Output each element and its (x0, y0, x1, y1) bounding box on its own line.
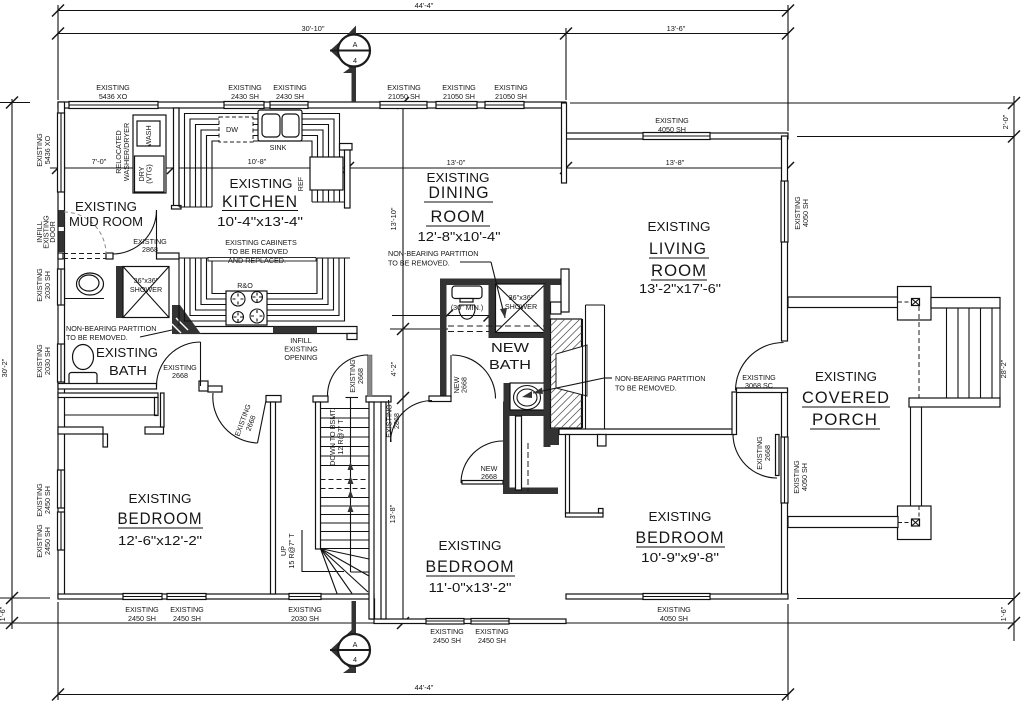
svg-text:EXISTING: EXISTING (228, 83, 262, 92)
svg-text:EXISTING: EXISTING (655, 116, 689, 125)
wall closet below bath (58, 393, 158, 398)
stair direction arrow (346, 398, 370, 573)
svg-text:EXISTING: EXISTING (96, 345, 158, 360)
svg-text:2450 SH: 2450 SH (128, 614, 156, 623)
door living room porch 3068 SC (736, 343, 784, 391)
svg-text:ROOM: ROOM (651, 262, 707, 280)
door label new bath 2668 rotated (452, 376, 469, 393)
chase walls below new bath (503, 402, 510, 494)
svg-text:EXISTING: EXISTING (649, 509, 712, 524)
svg-text:EXISTING: EXISTING (129, 491, 192, 506)
window 2030 SH left #1 (58, 269, 65, 305)
svg-text:EXISTING: EXISTING (442, 83, 476, 92)
svg-text:ROOM: ROOM (431, 208, 486, 226)
door label porch 3068 SC (742, 373, 776, 390)
note non-bearing bath (66, 324, 172, 342)
kitchen sink double bowl (258, 110, 302, 152)
room label dining (418, 170, 501, 244)
label 36x36 shower existing (130, 276, 162, 294)
svg-text:1'-6": 1'-6" (999, 606, 1008, 621)
svg-text:2450 SH: 2450 SH (478, 636, 506, 645)
toilet clearance dim line (392, 310, 506, 322)
window 4050 SH right wall lower (781, 437, 788, 503)
porch rail south-west (788, 517, 898, 528)
door closet 2668 (213, 393, 267, 443)
window label 2030 bottom (288, 605, 322, 623)
door middle bedroom 2868 (389, 400, 433, 442)
svg-text:BEDROOM: BEDROOM (426, 558, 515, 576)
svg-text:PORCH: PORCH (812, 411, 878, 429)
svg-text:EXISTING: EXISTING (430, 627, 464, 636)
wall vestibule jog vertical (732, 392, 737, 435)
porch post lower (898, 506, 932, 540)
svg-text:REF: REF (296, 176, 305, 191)
svg-text:NON-BEARING PARTITION: NON-BEARING PARTITION (615, 374, 705, 383)
window label 4050 bottom right (657, 605, 691, 623)
label down to bsmt rotated (328, 408, 345, 466)
window label 21050 #2 (442, 83, 476, 101)
svg-text:21050 SH: 21050 SH (495, 92, 527, 101)
door label bedroom right 2668 rotated (755, 436, 772, 470)
svg-text:WASH: WASH (144, 125, 153, 146)
svg-text:4: 4 (353, 655, 357, 664)
stair treads (321, 409, 370, 549)
svg-text:15 R@7" T: 15 R@7" T (287, 533, 296, 569)
window 2450 SH middle bottom #1 (426, 619, 464, 625)
extension line y=623 full width (0, 622, 1014, 624)
svg-text:13'-6": 13'-6" (667, 24, 686, 33)
svg-text:3068 SC: 3068 SC (745, 381, 773, 390)
svg-text:EXISTING: EXISTING (494, 83, 528, 92)
window 4050 SH right wall upper (781, 181, 788, 242)
label 36x36 shower new (505, 293, 537, 311)
svg-text:EXISTING: EXISTING (439, 538, 502, 553)
room label kitchen (217, 176, 303, 265)
svg-text:EXISTING: EXISTING (230, 176, 293, 191)
wall living room top (566, 133, 788, 139)
window label 5436 XO left (35, 133, 52, 167)
svg-text:4050 SH: 4050 SH (660, 614, 688, 623)
svg-text:2430 SH: 2430 SH (231, 92, 259, 101)
existing bath toilet (69, 345, 97, 386)
bedroom closet wall right (566, 435, 570, 514)
note non-bearing dining (388, 249, 507, 318)
chimney wall caps white (561, 269, 569, 312)
svg-text:21050 SH: 21050 SH (388, 92, 420, 101)
svg-text:SHOWER: SHOWER (130, 285, 162, 294)
door label mud 2868 (133, 237, 167, 254)
room label right bedroom (636, 509, 726, 565)
svg-text:SHOWER: SHOWER (505, 302, 537, 311)
svg-text:EXISTING CABINETS: EXISTING CABINETS (225, 238, 297, 247)
wall bedroom top bands (58, 427, 103, 434)
svg-text:44'-4": 44'-4" (415, 1, 434, 10)
door label bedroom 2868 rotated (385, 404, 402, 438)
svg-text:2'-0": 2'-0" (1001, 114, 1010, 129)
window 2430 SH #1 (224, 102, 264, 109)
svg-text:4050 SH: 4050 SH (800, 463, 809, 491)
svg-text:COVERED: COVERED (802, 389, 890, 407)
porch rail east vertical (911, 407, 922, 506)
window label 2450 left #1 (35, 483, 52, 517)
svg-text:EXISTING: EXISTING (170, 605, 204, 614)
infill door dashed swing (64, 212, 106, 254)
interior dimension line 7'-0"/10'-8"/13'-0"/13'-8" (50, 157, 794, 174)
svg-text:4'-2": 4'-2" (389, 361, 398, 376)
wall kitchen bottom end cap jog (347, 334, 357, 340)
window 5436 XO left wall (58, 113, 65, 192)
wall breast notch below (598, 435, 607, 447)
svg-text:TO BE REMOVED.: TO BE REMOVED. (66, 333, 128, 342)
svg-text:R&O: R&O (237, 281, 253, 290)
wall stair east + bedroom west (366, 396, 391, 402)
window 2030 SH bottom (289, 594, 321, 600)
wall mud room bottom (58, 253, 63, 259)
svg-text:12'-8"x10'-4": 12'-8"x10'-4" (418, 229, 501, 244)
dashed partition to be removed (448, 326, 545, 332)
chimney hatched masonry (551, 319, 582, 428)
svg-text:NON-BEARING PARTITION: NON-BEARING PARTITION (66, 324, 156, 333)
section marker bottom A/4 (330, 601, 371, 673)
note non-bearing living (533, 374, 705, 394)
kitchen upper counter nested lines (179, 108, 345, 207)
svg-text:2668: 2668 (481, 472, 497, 481)
porch stair treads east (947, 308, 1001, 398)
window label 4050 right lower (792, 460, 809, 494)
window label 5436 XO top (96, 83, 130, 101)
wall kitchen bottom (176, 327, 357, 334)
svg-text:2868: 2868 (392, 413, 401, 429)
chimney breast lines living room (583, 305, 605, 429)
room label left bedroom (118, 491, 204, 548)
svg-text:EXISTING: EXISTING (475, 627, 509, 636)
window 21050 SH #2 (436, 102, 477, 109)
svg-text:11'-0"x13'-2": 11'-0"x13'-2" (429, 580, 512, 595)
dimension line 44'-4" top (52, 1, 794, 17)
wall vestibule east-going (737, 388, 788, 393)
window 5436 XO top (69, 102, 158, 109)
stair break dashed lines (321, 480, 370, 489)
room label middle bedroom (426, 538, 516, 595)
window label 2450 bottom #2 (170, 605, 204, 623)
svg-text:BATH: BATH (489, 357, 531, 372)
svg-text:TO BE REMOVED.: TO BE REMOVED. (615, 384, 677, 393)
wall dining/living divider stub (562, 103, 567, 183)
vanity sink new bath (504, 383, 550, 416)
wall bottom left bedroom (58, 594, 374, 599)
svg-text:12 R@7" T: 12 R@7" T (336, 419, 345, 455)
svg-text:A: A (353, 40, 358, 49)
door chase to bedroom NEW 2668 (461, 441, 503, 484)
svg-text:2030 SH: 2030 SH (291, 614, 319, 623)
svg-text:DOOR: DOOR (48, 221, 57, 243)
wall existing bath bottom (58, 384, 157, 390)
wall living room bottom (559, 429, 734, 435)
door stair top 2668 (328, 355, 373, 396)
svg-text:36"x36": 36"x36" (509, 293, 534, 302)
svg-text:4: 4 (353, 56, 357, 65)
svg-text:WASHER/DRYER: WASHER/DRYER (122, 123, 131, 181)
svg-text:BATH: BATH (109, 363, 147, 378)
new bath shower 36x36 (496, 284, 546, 333)
window label 2430 #1 (228, 83, 262, 101)
room label mud room (69, 199, 143, 229)
svg-text:EXISTING: EXISTING (427, 170, 490, 185)
svg-text:EXISTING: EXISTING (75, 199, 137, 214)
porch stair bottom band (909, 398, 1000, 407)
window 2450 SH left #2 (58, 512, 65, 550)
wall exterior top (58, 102, 566, 108)
window 4050 SH bottom right (643, 594, 710, 600)
existing bath shower 36x36 (116, 266, 169, 318)
stair winder edge line (302, 530, 344, 572)
svg-text:EXISTING: EXISTING (273, 83, 307, 92)
svg-text:2450 SH: 2450 SH (173, 614, 201, 623)
new bath walls dark (440, 279, 561, 286)
infill existing opening dark bar (273, 327, 317, 334)
window 4050 SH living top (643, 133, 710, 140)
window label 2450 middle #2 (475, 627, 509, 645)
svg-text:(VTG): (VTG) (145, 164, 154, 184)
section marker top A/4 (330, 26, 371, 103)
wall exterior left (58, 102, 65, 598)
svg-text:44'-4": 44'-4" (415, 683, 434, 692)
svg-text:36"x36": 36"x36" (134, 276, 159, 285)
window 2450 SH bottom #2 (167, 594, 206, 600)
svg-text:BEDROOM: BEDROOM (636, 529, 725, 547)
window label 2450 middle #1 (430, 627, 464, 645)
svg-text:EXISTING: EXISTING (387, 83, 421, 92)
window label 21050 #1 (387, 83, 421, 101)
svg-text:2668: 2668 (763, 445, 772, 461)
porch stair dashed centerline (918, 306, 920, 398)
label up 15r rotated (279, 533, 296, 569)
svg-text:EXISTING: EXISTING (125, 605, 159, 614)
svg-text:EXISTING: EXISTING (815, 369, 877, 384)
svg-text:10'-8": 10'-8" (248, 157, 267, 166)
door label bath 2668 (163, 363, 197, 380)
svg-text:12'-6"x12'-2": 12'-6"x12'-2" (118, 533, 202, 548)
svg-text:10'-4"x13'-4": 10'-4"x13'-4" (217, 214, 303, 229)
window 2030 SH left #2 (58, 344, 65, 382)
door existing bath 2668 (157, 342, 201, 386)
svg-text:1'-6": 1'-6" (0, 606, 7, 621)
svg-text:30'-10": 30'-10" (302, 24, 325, 33)
wall stair west (313, 396, 328, 402)
door label infill existing door (35, 215, 57, 249)
door new bath 2668 (451, 355, 496, 399)
svg-text:2668: 2668 (460, 377, 469, 393)
svg-text:TO BE REMOVED.: TO BE REMOVED. (388, 259, 450, 268)
svg-text:2430 SH: 2430 SH (276, 92, 304, 101)
svg-text:OPENING: OPENING (284, 353, 318, 362)
chimney dark west wall (544, 284, 551, 447)
porch post upper (898, 287, 932, 321)
wall exterior right lower (782, 390, 788, 594)
svg-text:AND REPLACED.: AND REPLACED. (228, 256, 286, 265)
svg-text:KITCHEN: KITCHEN (222, 193, 298, 211)
new bath toilet (451, 286, 484, 319)
window 2430 SH #2 (270, 102, 308, 109)
wall exterior right upper (782, 136, 788, 341)
svg-text:A: A (353, 640, 358, 649)
svg-text:MUD ROOM: MUD ROOM (69, 214, 143, 229)
window 21050 SH #3 (485, 102, 524, 109)
door label closet 2668 rotated (233, 402, 258, 437)
svg-text:SINK: SINK (270, 143, 287, 152)
svg-text:2668: 2668 (356, 368, 365, 384)
svg-text:BEDROOM: BEDROOM (118, 510, 203, 528)
svg-text:2450 SH: 2450 SH (43, 527, 52, 555)
svg-text:DW: DW (226, 125, 238, 134)
svg-text:2030 SH: 2030 SH (43, 347, 52, 375)
wall cap new bath west (429, 396, 451, 402)
svg-text:13'-2"x17'-6": 13'-2"x17'-6" (639, 281, 721, 296)
dimension line 30'-10" / 13'-6" (52, 24, 794, 40)
svg-text:EXISTING: EXISTING (288, 605, 322, 614)
infilled door dashed wall (63, 254, 106, 259)
svg-text:DINING: DINING (429, 184, 490, 202)
extension lines top (57, 5, 59, 100)
svg-text:NON-BEARING PARTITION: NON-BEARING PARTITION (388, 249, 478, 258)
svg-text:13'-10": 13'-10" (389, 207, 398, 230)
window label 2430 #2 (273, 83, 307, 101)
wall bottom right bedroom (566, 594, 788, 599)
chimney dark bottom piece (551, 428, 560, 445)
svg-text:2030 SH: 2030 SH (43, 271, 52, 299)
dimension 30'-2" left (0, 97, 50, 630)
window label 2450 left #2 (35, 524, 52, 558)
svg-text:2868: 2868 (142, 245, 158, 254)
refrigerator REF (296, 157, 343, 191)
svg-text:EXISTING: EXISTING (96, 83, 130, 92)
svg-text:13'-0": 13'-0" (447, 158, 466, 167)
door label stairtop 2668 rotated (348, 359, 365, 393)
infill door jamb blocks (59, 210, 65, 227)
svg-text:LIVING: LIVING (649, 240, 707, 258)
wall jog middle bedroom (370, 599, 375, 619)
room label living (639, 219, 721, 296)
svg-text:30'-2": 30'-2" (0, 358, 9, 377)
svg-text:(30" MIN.): (30" MIN.) (451, 303, 484, 312)
svg-text:NEW: NEW (491, 340, 530, 355)
kitchen lower counter nested lines (179, 258, 350, 326)
window label 4050 living top (655, 116, 689, 134)
svg-text:4050 SH: 4050 SH (658, 125, 686, 134)
svg-text:21050 SH: 21050 SH (443, 92, 475, 101)
porch rail north-west (788, 297, 898, 308)
window label 2450 bottom #1 (125, 605, 159, 623)
svg-text:2450 SH: 2450 SH (433, 636, 461, 645)
svg-text:5436 XO: 5436 XO (43, 135, 52, 164)
wall kitchen west (174, 108, 180, 206)
svg-text:TO BE REMOVED: TO BE REMOVED (228, 247, 288, 256)
window 2450 SH left #1 (58, 470, 65, 508)
range R&O (226, 281, 267, 325)
window label 21050 #3 (494, 83, 528, 101)
stair winder fan (321, 549, 370, 594)
window 21050 SH #1 (380, 102, 427, 109)
svg-text:5436 XO: 5436 XO (99, 92, 128, 101)
window 2450 SH bottom #1 (123, 594, 162, 600)
svg-text:13'-8": 13'-8" (388, 504, 397, 523)
window 2450 SH middle bottom #2 (471, 619, 509, 625)
existing bath sink oval (64, 273, 104, 299)
dishwasher DW dashed (219, 117, 253, 142)
svg-text:13'-8": 13'-8" (666, 158, 685, 167)
dimension line 44'-4" bottom (52, 602, 794, 701)
svg-text:2668: 2668 (172, 371, 188, 380)
label infill existing opening (284, 336, 318, 362)
svg-text:2450 SH: 2450 SH (43, 486, 52, 514)
svg-text:EXISTING: EXISTING (657, 605, 691, 614)
door mud room 2868 (113, 210, 157, 254)
room label existing bath (96, 345, 158, 378)
window label 2030 left #1 (35, 268, 52, 302)
dimension 2'-0" / 28'-2" / 1'-6" right (570, 96, 1020, 641)
wall bottom middle bedroom (dropped) (374, 619, 566, 624)
washer dryer unit (133, 115, 166, 193)
chimney firebox (556, 345, 587, 396)
room label covered porch (802, 369, 890, 429)
svg-text:10'-9"x9'-8": 10'-9"x9'-8" (641, 550, 719, 565)
door living to bedroom 2668 (733, 434, 779, 478)
svg-text:7'-0": 7'-0" (92, 157, 107, 166)
svg-text:4050 SH: 4050 SH (801, 199, 810, 227)
kitchen peninsula wall stub (340, 144, 353, 151)
window label 2030 left #2 (35, 344, 52, 378)
interior vertical dimension 13'-10"/4'-2"/13'-8" (388, 97, 448, 629)
stair closet wall (266, 396, 281, 403)
room label new bath (489, 340, 531, 372)
door label chase NEW 2668 (481, 464, 498, 481)
dark corner kitchen SW (172, 305, 201, 334)
svg-text:EXISTING: EXISTING (648, 219, 711, 234)
window label 4050 right upper (793, 196, 810, 230)
porch rail north-east (931, 298, 1000, 309)
